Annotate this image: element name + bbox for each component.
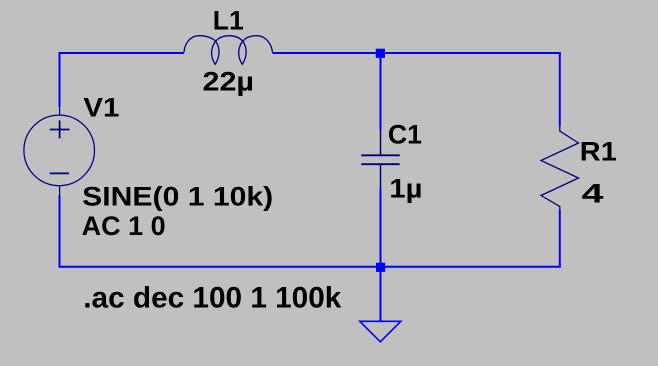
wire bottom horizontal: [59, 266, 561, 268]
ground: [360, 321, 401, 342]
svg-text:R1: R1: [580, 136, 617, 166]
voltage source V1: [24, 107, 95, 195]
wire ground stub: [380, 267, 382, 321]
svg-text:L1: L1: [213, 6, 244, 36]
junction node bottom: [376, 263, 385, 272]
svg-text:1µ: 1µ: [389, 174, 422, 204]
svg-text:.ac dec 100 1 100k: .ac dec 100 1 100k: [83, 282, 341, 315]
wire capacitor bottom: [380, 189, 382, 267]
svg-text:C1: C1: [388, 120, 422, 150]
wire top-left vertical: [59, 53, 61, 107]
junction node top: [376, 49, 385, 58]
wire right vertical bottom: [559, 210, 561, 267]
svg-text:SINE(0 1 10k): SINE(0 1 10k): [82, 182, 273, 212]
wire top horizontal right: [273, 52, 561, 54]
svg-text:4: 4: [582, 179, 604, 209]
wire top horizontal left: [59, 52, 185, 54]
wire capacitor top: [380, 53, 382, 130]
inductor L1: [184, 36, 273, 65]
resistor R1: [541, 125, 579, 211]
capacitor C1: [361, 130, 399, 189]
svg-text:V1: V1: [83, 93, 119, 123]
svg-text:AC 1 0: AC 1 0: [82, 211, 166, 241]
wire right vertical top: [559, 53, 561, 126]
wire bottom-left vertical: [59, 195, 61, 267]
svg-text:22µ: 22µ: [203, 67, 255, 97]
